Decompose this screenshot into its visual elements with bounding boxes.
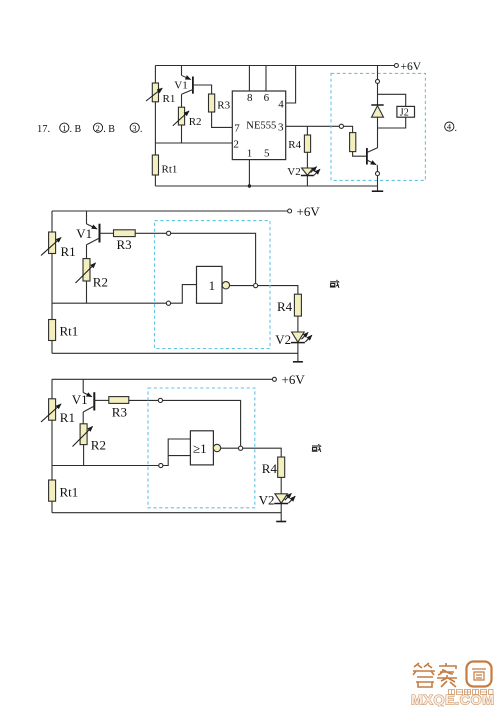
svg-text:NE555: NE555 <box>246 120 276 131</box>
node: +6V supply terminal circuit 2 <box>288 209 292 213</box>
wire: base of V1 to R3 circuit 3 <box>94 399 109 401</box>
svg-text:R1: R1 <box>163 93 176 105</box>
wire: base resistor to transistor base <box>353 152 367 157</box>
wire: pin 4 to top rail <box>286 66 296 104</box>
answer item circled 1 . B <box>60 123 82 135</box>
wire: divider line up to both gate inputs circuit 3 <box>163 439 191 466</box>
svg-text:4: 4 <box>447 122 452 132</box>
node: inverter output bubble circuit 2 <box>222 282 229 289</box>
wire: divider line step up to gate input circuit 2 <box>171 285 197 304</box>
LED V2 circuit 2 <box>275 332 312 347</box>
node: terminal circle on R3 line circuit 3 <box>158 398 162 402</box>
svg-text:R4: R4 <box>277 299 293 314</box>
gate U1 (OR gate >=1) circuit 3 <box>190 431 213 465</box>
svg-text:R1: R1 <box>60 410 75 425</box>
node: terminal circle on pin3 line at dashed box <box>339 124 343 128</box>
resistor base resistor (unlabelled) circuit 1 <box>350 133 356 152</box>
svg-text:1: 1 <box>247 147 253 159</box>
svg-text:V2: V2 <box>275 332 291 347</box>
wire: R3 line over to output node circuit 3 <box>163 400 241 446</box>
svg-text:R4: R4 <box>288 139 301 151</box>
resistor R1 (adjustable) circuit 1 <box>146 83 175 105</box>
svg-text:3: 3 <box>278 122 284 134</box>
ground circuit 2 <box>293 361 303 363</box>
IC U1 NE555 <box>232 91 285 160</box>
resistor R3 (horizontal) circuit 2 <box>114 230 136 252</box>
node: terminal circle below rail in relay box <box>376 79 380 83</box>
svg-text:+6V: +6V <box>297 204 321 219</box>
wire: emitter down to terminal <box>376 165 378 172</box>
resistor R4 circuit 1 <box>288 135 310 152</box>
svg-text:6: 6 <box>264 92 270 104</box>
wire: pin 8 to top rail <box>248 66 250 92</box>
node: +6V supply terminal circuit 3 <box>272 377 276 381</box>
resistor R3 circuit 1 <box>209 94 231 112</box>
svg-text:+6V: +6V <box>401 61 422 73</box>
node: junction terminal circle on output line circuit 2 <box>254 284 258 288</box>
wire: pin 1 to bottom rail <box>248 160 250 186</box>
svg-text:R4: R4 <box>262 461 278 476</box>
wire: base of V1 to R3 circuit 1 <box>193 85 212 94</box>
watermark small caption characters <box>449 690 494 695</box>
wire: terminal to ground circuit 1 <box>377 176 379 192</box>
LED V2 circuit 3 <box>259 493 296 508</box>
resistor R1 (adjustable) circuit 2 <box>41 232 76 259</box>
wire: +6V rail branch into relay box <box>377 66 379 80</box>
wire: LED down through bottom rail to ground circuit 2 <box>297 343 299 362</box>
svg-text:V2: V2 <box>287 166 300 178</box>
transistor Q (NPN relay driver) circuit 1 <box>367 148 378 165</box>
wire: pin 2 line circuit 1 <box>155 142 232 144</box>
svg-text:R3: R3 <box>112 405 127 420</box>
resistor R4 circuit 2 <box>277 294 301 316</box>
node: junction terminal circle on output line circuit 3 <box>239 446 243 450</box>
wire: diode cathode node to relay coil top <box>378 94 406 106</box>
wire: pin3 line into relay driver <box>344 126 353 132</box>
svg-text:8: 8 <box>247 92 253 104</box>
svg-text:Rt1: Rt1 <box>60 324 79 339</box>
diode VD (flyback) circuit 1 <box>371 105 383 117</box>
svg-text:MXQE.COM: MXQE.COM <box>411 693 495 707</box>
svg-text:+6V: +6V <box>282 372 306 387</box>
wire: R4 branch from pin 3 line <box>306 126 308 135</box>
answer item circled 4 . <box>445 122 457 134</box>
resistor Rt1 circuit 2 <box>49 320 79 341</box>
svg-text:1: 1 <box>62 123 66 133</box>
svg-text:J2: J2 <box>400 107 409 118</box>
wire: LED down through bottom rail to ground circuit 3 <box>280 504 282 522</box>
wire: LED to bottom rail circuit 1 <box>306 176 308 187</box>
wire: +6V top rail circuit 2 <box>52 210 288 212</box>
wire: pin 3 output line circuit 1 <box>286 125 340 127</box>
wire: R2 bottom to pin 2 line circuit 1 <box>181 125 183 143</box>
resistor R2 (adjustable) circuit 1 <box>173 107 202 128</box>
wire: R3 line over to output node circuit 2 <box>171 233 256 283</box>
watermark logo rounded square with quan <box>467 662 492 687</box>
dashed box circuit 2 <box>155 221 271 349</box>
wire: R2 bottom to divider line circuit 2 <box>86 281 88 303</box>
wire: left vertical rail circuit 3 <box>51 379 53 512</box>
svg-text:. B: . B <box>103 124 115 135</box>
wire: bottom rail circuit 1 <box>155 185 377 187</box>
wire: gate output line circuit 3 <box>221 447 239 449</box>
node: terminal circle on R3 line circuit 2 <box>167 231 171 235</box>
label: huo (or) character circuit 2 <box>330 280 339 288</box>
wire: left vertical rail circuit 2 <box>51 211 53 353</box>
svg-text:2: 2 <box>96 123 100 133</box>
wire: R3 to dashed box circuit 3 <box>129 399 158 401</box>
wire: R3 to dashed box circuit 2 <box>135 232 166 234</box>
wire: base of V1 to R3 circuit 2 <box>100 232 114 234</box>
wire: lower gate input stub circuit 3 <box>168 455 190 457</box>
dashed box circuit 3 <box>148 388 255 508</box>
svg-text:7: 7 <box>234 122 240 134</box>
dashed relay box circuit 1 <box>331 73 425 180</box>
wire: R2 bottom to divider line circuit 3 <box>83 445 85 466</box>
resistor R2 (adjustable) circuit 2 <box>76 259 108 290</box>
svg-text:3: 3 <box>132 123 136 133</box>
svg-text:5: 5 <box>264 147 270 159</box>
watermark char da (answer) <box>413 663 435 687</box>
svg-text:1: 1 <box>209 278 216 293</box>
wire: R4 to LED circuit 3 <box>280 477 282 493</box>
svg-text:.: . <box>140 124 143 135</box>
answer item circled 3 . <box>130 123 142 135</box>
junction dot pin1/bottom rail <box>248 184 251 187</box>
svg-text:. B: . B <box>70 124 82 135</box>
svg-text:2: 2 <box>233 139 239 151</box>
node: terminal circle on divider line circuit 2 <box>166 301 170 305</box>
wire: +6V top rail circuit 3 <box>52 378 272 380</box>
ground circuit 3 <box>276 521 286 523</box>
resistor R4 circuit 3 <box>262 457 285 477</box>
node: +6V supply terminal circuit 1 <box>394 64 398 68</box>
svg-text:R2: R2 <box>93 275 108 290</box>
LED V2 circuit 1 <box>287 166 320 178</box>
svg-text:R1: R1 <box>61 244 76 259</box>
label: huo (or) character circuit 3 <box>312 444 321 452</box>
svg-text:R3: R3 <box>117 237 132 252</box>
wire: output line to R4 circuit 2 <box>258 286 298 295</box>
wire: R4 to LED circuit 1 <box>306 152 308 168</box>
resistor Rt1 circuit 1 <box>152 155 177 175</box>
transistor V1 (PNP) circuit 1 <box>174 66 193 108</box>
resistor R3 (horizontal) circuit 3 <box>109 397 129 420</box>
svg-text:.: . <box>455 123 458 134</box>
node: gate output bubble circuit 3 <box>213 444 220 451</box>
svg-text:17.: 17. <box>37 124 50 135</box>
answer item circled 2 . B <box>93 123 115 135</box>
wire: +6V top rail circuit 1 <box>155 65 394 67</box>
wire: diode anode down to transistor collector <box>377 117 379 148</box>
wire: bottom rail circuit 3 <box>52 512 281 514</box>
wire: divider line circuit 2 <box>52 302 166 304</box>
wire: gate output line circuit 2 <box>230 285 254 287</box>
wire: terminal down to diode <box>377 83 379 105</box>
wire: R4 to LED circuit 2 <box>297 316 299 332</box>
wire: left vertical rail circuit 1 <box>154 66 156 187</box>
svg-text:R2: R2 <box>91 437 106 452</box>
watermark char an (case) <box>437 663 457 687</box>
resistor R1 (adjustable) circuit 3 <box>41 399 75 425</box>
svg-text:V2: V2 <box>259 493 275 508</box>
relay coil J2 <box>397 106 415 118</box>
answer row: question number 17 <box>37 124 50 135</box>
node: terminal circle on divider line circuit 3 <box>159 463 163 467</box>
node: emitter terminal circle <box>376 172 380 176</box>
wire: bottom rail circuit 2 <box>52 352 298 354</box>
svg-text:≥1: ≥1 <box>193 441 207 456</box>
resistor R2 (adjustable) circuit 3 <box>73 424 106 453</box>
svg-text:4: 4 <box>278 98 284 110</box>
ground circuit 1 <box>372 190 383 192</box>
transistor V1 (PNP) circuit 3 <box>72 379 95 424</box>
svg-text:V1: V1 <box>76 226 92 241</box>
transistor V1 (PNP) circuit 2 <box>76 211 99 259</box>
svg-text:Rt1: Rt1 <box>60 484 79 499</box>
svg-text:V1: V1 <box>174 80 187 92</box>
wire: divider line circuit 3 <box>52 465 159 467</box>
svg-text:Rt1: Rt1 <box>162 163 178 175</box>
wire: pin 6 to top rail <box>265 66 267 92</box>
svg-text:V1: V1 <box>72 392 88 407</box>
gate U1 (inverter "1") circuit 2 <box>197 266 223 303</box>
wire: R3 to pin 7 circuit 1 <box>212 112 233 127</box>
svg-text:R3: R3 <box>217 100 230 112</box>
svg-text:R2: R2 <box>189 116 202 128</box>
resistor Rt1 circuit 3 <box>49 480 79 501</box>
wire: relay coil bottom back to diode anode <box>378 117 406 128</box>
wire: output line to R4 circuit 3 <box>243 448 282 457</box>
